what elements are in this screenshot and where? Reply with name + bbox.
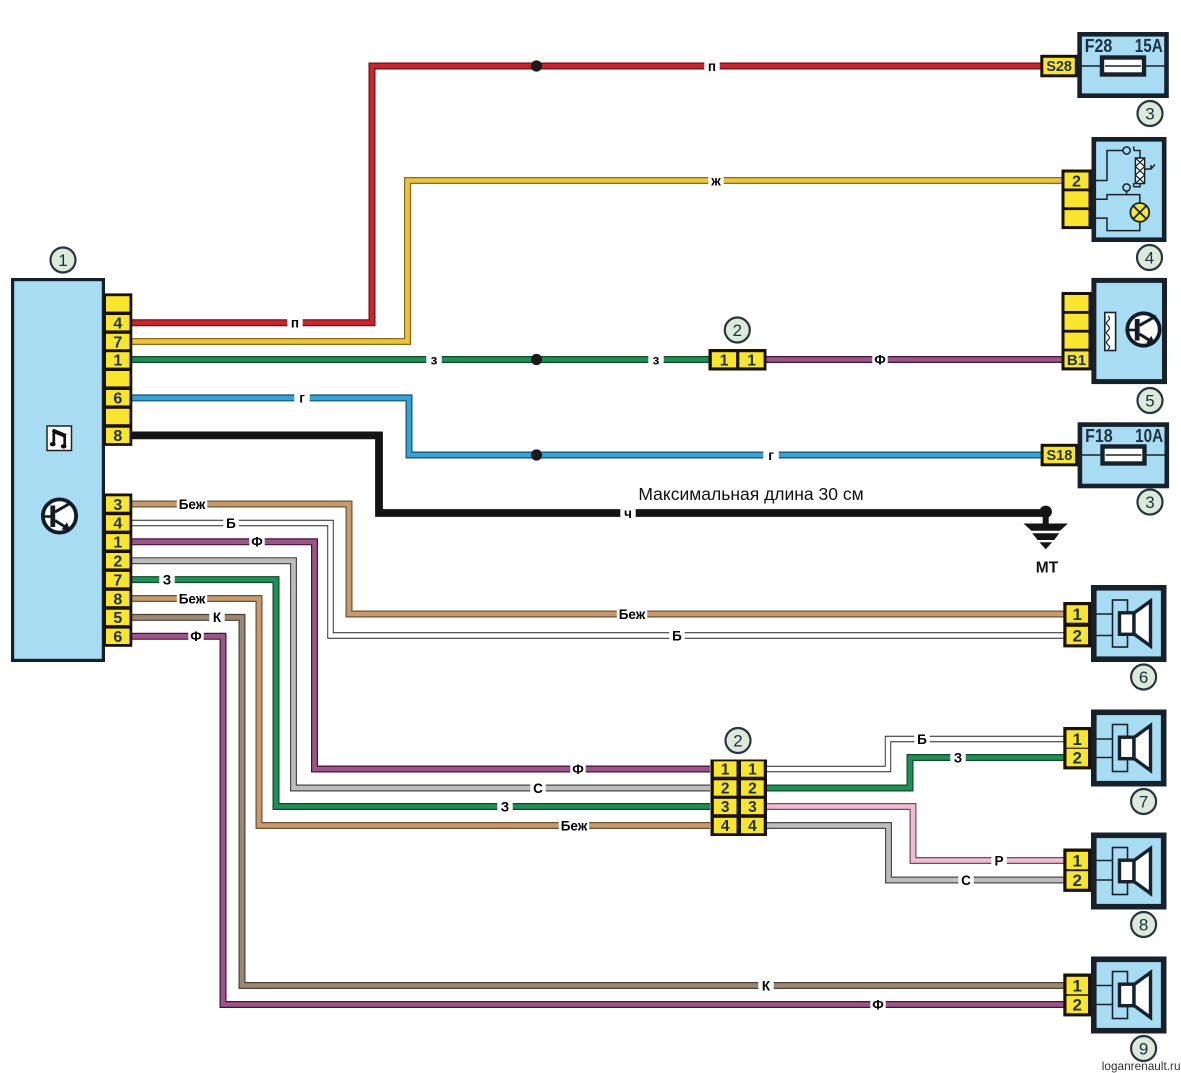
lamp-switch unit 4	[1094, 139, 1164, 239]
svg-text:2: 2	[113, 554, 122, 571]
svg-text:8: 8	[1139, 916, 1148, 935]
fuse F18 10A	[1080, 425, 1167, 486]
svg-text:S28: S28	[1046, 59, 1072, 75]
svg-text:S18: S18	[1046, 448, 1072, 464]
callout circle 2	[725, 318, 750, 343]
radio connector A pins (blank,4,7,1,blank,6,blank,8)	[103, 293, 132, 446]
svg-text:Б: Б	[917, 732, 927, 747]
callout circle 3	[1138, 101, 1163, 126]
svg-text:1: 1	[721, 762, 730, 779]
svg-text:4: 4	[113, 516, 122, 533]
svg-text:3: 3	[748, 799, 757, 816]
svg-text:Ф: Ф	[872, 997, 884, 1012]
svg-text:Б: Б	[226, 516, 236, 531]
svg-text:п: п	[291, 316, 299, 331]
speaker 6 connector pins 1,2	[1063, 602, 1091, 647]
svg-text:1: 1	[1072, 977, 1081, 996]
svg-text:4: 4	[721, 818, 730, 835]
callout circle 7	[1131, 789, 1156, 814]
svg-text:1: 1	[113, 353, 122, 370]
svg-text:Ф: Ф	[874, 352, 886, 367]
svg-text:Беж: Беж	[619, 607, 646, 622]
fuse F28 15A	[1080, 34, 1167, 95]
callout circle 3	[1138, 490, 1163, 515]
svg-text:5: 5	[1145, 392, 1154, 411]
wire ж yellow radio pin7 to lamp unit pin2	[131, 173, 1063, 342]
svg-text:B1: B1	[1067, 352, 1086, 369]
wire Б white radio pin4 to speaker6 pin2	[131, 516, 1066, 644]
radio connector B pins (3,4,1,2,7,8,5,6)	[103, 494, 132, 647]
svg-text:5: 5	[113, 610, 122, 627]
svg-text:К: К	[762, 978, 771, 993]
antenna amplifier unit 5	[1094, 280, 1165, 381]
svg-text:15A: 15A	[1135, 36, 1163, 56]
svg-text:ж: ж	[710, 173, 721, 188]
svg-text:4: 4	[113, 316, 122, 333]
svg-text:7: 7	[1139, 793, 1148, 812]
speaker 9 connector pins 1,2	[1063, 974, 1091, 1017]
svg-text:7: 7	[113, 572, 122, 589]
callout circle 1	[51, 248, 76, 273]
svg-text:1: 1	[58, 251, 67, 270]
svg-text:Р: Р	[994, 853, 1003, 868]
svg-text:2: 2	[721, 781, 730, 798]
svg-text:3: 3	[1145, 493, 1154, 512]
wire г blue radio pin6 to fuse S18	[131, 390, 1042, 462]
svg-text:Б: Б	[672, 628, 682, 643]
callout circle 9	[1131, 1036, 1156, 1061]
callout circle 5	[1138, 388, 1163, 413]
svg-text:3: 3	[1145, 105, 1154, 124]
svg-text:4: 4	[1145, 249, 1154, 268]
svg-text:1: 1	[747, 353, 756, 370]
svg-text:4: 4	[748, 818, 757, 835]
svg-text:6: 6	[113, 391, 122, 408]
svg-text:6: 6	[113, 629, 122, 646]
callout circle 4	[1137, 245, 1162, 270]
svg-text:1: 1	[1072, 730, 1081, 749]
intermediate connector 2 (pins 1|1)	[709, 349, 767, 371]
svg-text:С: С	[533, 781, 543, 796]
svg-text:2: 2	[748, 781, 757, 798]
svg-text:МТ: МТ	[1036, 560, 1059, 577]
svg-text:3: 3	[113, 497, 122, 514]
svg-text:1: 1	[1072, 605, 1081, 624]
svg-text:1: 1	[1072, 852, 1081, 871]
junction node on wire п red radio pin4 to fuse S28	[531, 60, 542, 71]
wire Ф purple radio pin6 to speaker9 pin2	[131, 629, 1066, 1013]
svg-text:8: 8	[113, 428, 122, 445]
svg-text:1: 1	[113, 535, 122, 552]
wire З green radio pin7 to connector 2 pin3	[131, 572, 710, 814]
wire Беж beige radio pin3 to speaker6 pin1	[131, 497, 1066, 622]
svg-text:1: 1	[748, 762, 757, 779]
svg-text:2: 2	[1072, 871, 1081, 890]
wire Б white connector2 pin1 to speaker7 pin1	[765, 732, 1066, 770]
svg-text:Беж: Беж	[179, 591, 206, 606]
svg-text:2: 2	[733, 321, 742, 340]
music note icon inside radio	[47, 426, 72, 451]
lamp-switch unit 4 connector pins (2,blank,blank)	[1062, 170, 1092, 230]
svg-text:Беж: Беж	[561, 818, 588, 833]
connector S28	[1040, 55, 1078, 78]
callout circle 6	[1131, 665, 1156, 690]
svg-text:С: С	[961, 873, 971, 888]
speaker 6	[1094, 588, 1164, 659]
wire Беж beige radio pin8 to connector 2 pin4	[131, 591, 710, 833]
speaker 9	[1094, 959, 1164, 1030]
svg-text:г: г	[299, 391, 305, 406]
svg-text:Ф: Ф	[251, 535, 263, 550]
wire З green connector2 pin2 to speaker7 pin2	[765, 750, 1066, 788]
svg-text:З: З	[501, 799, 509, 814]
svg-text:F28: F28	[1085, 36, 1113, 56]
svg-text:loganrenault.ru: loganrenault.ru	[1102, 1059, 1181, 1073]
svg-text:з: з	[653, 352, 660, 367]
wire С gray connector2 pin4 to speaker8 pin2	[765, 826, 1066, 888]
svg-text:2: 2	[1072, 749, 1081, 768]
wire С gray radio pin2 to connector 2 pin2	[131, 561, 710, 796]
junction node on wire з green radio pin1 to connector 2	[531, 354, 542, 365]
wire К brown radio pin5 to speaker9 pin1	[131, 610, 1066, 993]
svg-text:2: 2	[1072, 996, 1081, 1015]
callout circle 2	[726, 728, 751, 753]
amplifier (transistor) icon inside radio	[43, 499, 76, 532]
speaker 7 connector pins 1,2	[1063, 727, 1091, 769]
svg-text:7: 7	[113, 334, 122, 351]
ground MT	[1024, 506, 1068, 577]
svg-text:З: З	[163, 572, 171, 587]
wire п red radio pin4 to fuse S28	[131, 59, 1042, 331]
junction node on wire г blue radio pin6 to fuse S18	[531, 449, 542, 460]
svg-text:Ф: Ф	[572, 762, 584, 777]
speaker 8	[1094, 835, 1164, 906]
antenna amplifier unit 5 connector pins (blank,blank,blank,B1)	[1062, 292, 1092, 370]
callout circle 8	[1131, 912, 1156, 937]
svg-text:2: 2	[1072, 173, 1081, 190]
svg-text:9: 9	[1139, 1040, 1148, 1059]
svg-text:2: 2	[733, 732, 742, 751]
speaker 7	[1094, 712, 1164, 783]
svg-text:Максимальная длина 30 см: Максимальная длина 30 см	[638, 484, 863, 504]
wire ч black radio pin8 to ground MT	[131, 435, 1046, 520]
wire Р pink connector2 pin3 to speaker8 pin1	[765, 807, 1066, 869]
svg-text:г: г	[768, 448, 774, 463]
svg-text:2: 2	[1072, 627, 1081, 646]
wire Ф purple radio pin1 to connector 2 pin1	[131, 534, 710, 777]
wire з green radio pin1 to connector 2	[131, 352, 710, 367]
svg-text:п: п	[708, 59, 716, 74]
svg-text:ч: ч	[624, 506, 632, 521]
svg-text:10A: 10A	[1135, 426, 1163, 446]
svg-text:1: 1	[720, 353, 729, 370]
svg-text:з: з	[431, 352, 438, 367]
svg-text:Ф: Ф	[190, 629, 202, 644]
connector S18	[1041, 444, 1079, 467]
svg-text:К: К	[213, 610, 222, 625]
svg-text:F18: F18	[1085, 426, 1113, 446]
intermediate connector 2 (4 pins, two columns)	[711, 760, 768, 837]
wire Ф purple connector 2 to antenna unit B1	[765, 352, 1063, 367]
speaker 8 connector pins 1,2	[1063, 849, 1091, 892]
svg-text:Беж: Беж	[179, 497, 206, 512]
car radio unit 1	[13, 280, 104, 661]
svg-text:6: 6	[1139, 668, 1148, 687]
svg-text:З: З	[954, 750, 962, 765]
svg-text:3: 3	[721, 799, 730, 816]
svg-text:8: 8	[113, 591, 122, 608]
